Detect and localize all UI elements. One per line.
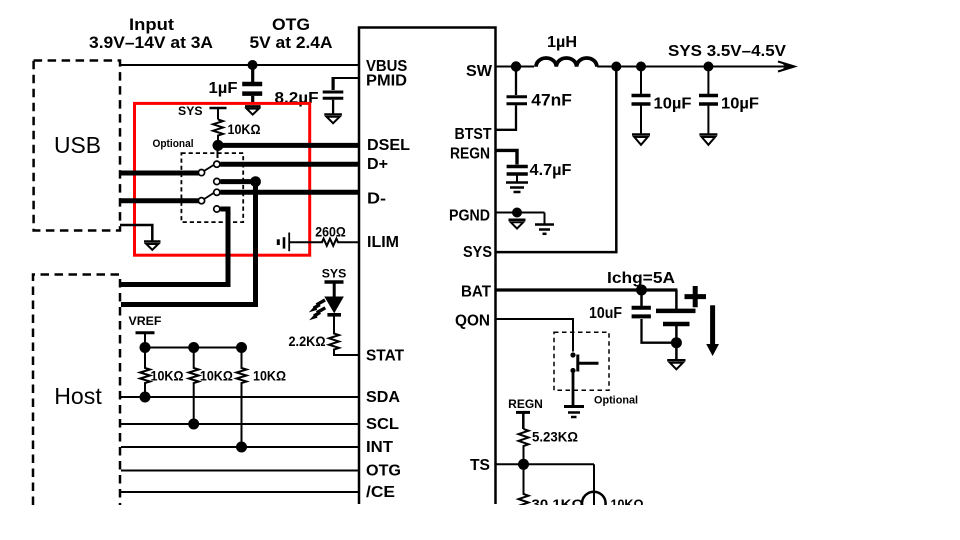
inductor 1uH xyxy=(536,34,597,67)
svg-text:1µH: 1µH xyxy=(547,34,577,51)
wire SDA xyxy=(121,396,359,398)
svg-text:10KΩ: 10KΩ xyxy=(200,368,233,384)
IC U1 charger xyxy=(359,28,496,505)
node cap1 xyxy=(636,62,646,72)
svg-text:INT: INT xyxy=(366,439,393,456)
ground 8.2uF xyxy=(324,114,342,123)
wire D- xyxy=(220,190,359,195)
node DSEL junction xyxy=(213,140,224,151)
svg-text:SW: SW xyxy=(466,63,493,80)
wire to host upper xyxy=(121,209,228,285)
svg-text:10KΩ: 10KΩ xyxy=(253,368,286,384)
ground PGND earth xyxy=(535,213,554,234)
battery BT1 xyxy=(656,286,706,343)
wire VREF bus xyxy=(145,347,242,349)
node SDA xyxy=(140,392,151,403)
capacitor 1uF xyxy=(209,65,263,105)
svg-text:47nF: 47nF xyxy=(531,90,572,109)
svg-text:10KΩ: 10KΩ xyxy=(228,121,261,137)
resistor 260ohm xyxy=(290,224,359,246)
svg-text:Optional: Optional xyxy=(153,138,194,150)
title Input xyxy=(89,15,213,52)
svg-text:PGND: PGND xyxy=(449,208,490,225)
svg-text:SYS 3.5V–4.5V: SYS 3.5V–4.5V xyxy=(668,43,786,60)
svg-text:D-: D- xyxy=(367,191,386,208)
capacitor 8.2uF xyxy=(275,77,344,114)
wire SYS output xyxy=(597,66,789,68)
node SW xyxy=(511,61,521,71)
resistor 2.2K xyxy=(289,317,360,356)
node INT xyxy=(236,442,247,453)
thermistor 10K xyxy=(582,464,644,515)
ground USB xyxy=(144,242,161,250)
svg-text:Ichg=5A: Ichg=5A xyxy=(607,270,675,287)
svg-text:30.1KΩ: 30.1KΩ xyxy=(532,496,584,512)
node cap2 xyxy=(703,62,713,72)
wire QON xyxy=(496,319,574,352)
wire BAT xyxy=(496,288,678,291)
svg-text:REGN: REGN xyxy=(508,397,543,411)
svg-text:D+: D+ xyxy=(367,156,388,173)
resistor 30.1K xyxy=(519,464,584,512)
svg-text:SDA: SDA xyxy=(366,389,400,406)
wire OTG xyxy=(121,470,359,472)
net SYS to pin xyxy=(496,67,617,253)
svg-text:/CE: /CE xyxy=(366,484,395,501)
svg-text:10uF: 10uF xyxy=(589,305,622,322)
net SYS rail LED xyxy=(322,267,347,299)
arrow charge current xyxy=(706,305,719,356)
wire PMID xyxy=(333,77,359,79)
switch box dashed xyxy=(181,153,243,222)
svg-text:DSEL: DSEL xyxy=(367,137,410,154)
battery ILIM ref xyxy=(278,233,289,252)
node L out xyxy=(611,62,621,72)
capacitor 10uF BAT xyxy=(589,290,676,343)
ground 1uF xyxy=(245,106,261,114)
svg-text:10KΩ: 10KΩ xyxy=(611,496,644,512)
svg-text:10µF: 10µF xyxy=(654,96,692,113)
net SYS rail top xyxy=(178,104,226,120)
node battery gnd xyxy=(671,337,682,348)
wire PGND xyxy=(496,212,545,214)
svg-text:2.2KΩ: 2.2KΩ xyxy=(289,333,326,349)
svg-text:BTST: BTST xyxy=(455,126,492,143)
wire switch to gnd xyxy=(572,373,575,406)
svg-text:Input: Input xyxy=(129,15,174,34)
node VBUS junction xyxy=(248,60,258,70)
svg-text:OTG: OTG xyxy=(272,15,310,34)
title OTG xyxy=(250,15,333,52)
wire DSEL xyxy=(218,143,359,148)
capacitor 10uF sys2 xyxy=(699,67,759,135)
svg-text:ILIM: ILIM xyxy=(367,234,399,251)
wire TS xyxy=(496,463,595,465)
LED STAT xyxy=(309,297,343,320)
node BAT xyxy=(636,285,647,296)
wire USB ground xyxy=(120,225,152,241)
red highlight box xyxy=(135,103,310,255)
wire /CE xyxy=(121,491,359,493)
svg-text:5.23KΩ: 5.23KΩ xyxy=(532,429,578,445)
capacitor 4.7uF REGN xyxy=(496,150,572,182)
svg-text:TS: TS xyxy=(470,457,490,474)
ground 4.7uF earth xyxy=(506,183,528,193)
wire sw1 pole xyxy=(120,171,199,176)
ground battery xyxy=(667,343,685,370)
node SCL xyxy=(188,419,199,430)
svg-text:USB: USB xyxy=(54,132,101,158)
wire SW output xyxy=(496,66,535,68)
svg-text:Host: Host xyxy=(54,383,102,409)
resistor 10K SDA xyxy=(140,348,184,398)
resistor 10K SCL xyxy=(189,348,233,425)
svg-text:4.7µF: 4.7µF xyxy=(530,162,572,179)
node bus 3 xyxy=(236,342,247,353)
wire sw2 pole xyxy=(120,198,199,203)
net VREF rail xyxy=(129,314,162,348)
svg-text:260Ω: 260Ω xyxy=(315,224,346,240)
svg-text:VREF: VREF xyxy=(129,314,162,328)
switch dashed box xyxy=(554,332,609,390)
node PGND xyxy=(512,208,522,218)
arrow SYS output xyxy=(778,62,795,72)
svg-text:3.9V–14V at 3A: 3.9V–14V at 3A xyxy=(89,33,213,52)
ground 10uF sys1 xyxy=(632,135,650,145)
svg-text:SYS: SYS xyxy=(463,244,492,261)
node bus 2 xyxy=(188,342,199,353)
svg-text:5V at 2.4A: 5V at 2.4A xyxy=(250,33,333,52)
ground PGND triangle xyxy=(509,220,526,229)
wire SCL xyxy=(121,423,359,425)
node bus 1 xyxy=(140,342,151,353)
svg-text:STAT: STAT xyxy=(366,348,404,365)
USB connector box xyxy=(34,61,120,231)
resistor 10K DSEL pullup xyxy=(213,120,261,141)
ground switch earth xyxy=(564,407,584,418)
svg-text:10µF: 10µF xyxy=(721,96,759,113)
ground 10uF sys2 xyxy=(699,135,717,145)
svg-text:SCL: SCL xyxy=(366,416,399,433)
wire VBUS input xyxy=(120,64,359,66)
Host box xyxy=(33,275,120,506)
svg-text:BAT: BAT xyxy=(461,284,491,301)
svg-text:1µF: 1µF xyxy=(209,80,238,97)
svg-text:REGN: REGN xyxy=(450,146,490,163)
svg-text:QON: QON xyxy=(455,313,490,330)
switch sw2 xyxy=(198,189,220,212)
capacitor 10uF sys1 xyxy=(632,67,692,135)
net REGN rail xyxy=(508,397,543,429)
pushbutton switch xyxy=(570,352,598,373)
switch sw1 xyxy=(198,161,220,185)
node D junction xyxy=(250,176,261,187)
resistor 5.23K xyxy=(519,429,579,465)
wire DSEL stem to switch xyxy=(217,145,219,158)
wire to host lower xyxy=(121,182,256,305)
wire sw1 lower throw xyxy=(220,179,250,184)
svg-text:PMID: PMID xyxy=(366,73,407,90)
svg-text:SYS: SYS xyxy=(322,267,347,281)
wire INT xyxy=(121,446,359,448)
svg-text:Optional: Optional xyxy=(594,395,638,407)
resistor 10K INT xyxy=(237,348,287,448)
node TS xyxy=(518,459,529,470)
wire D+ xyxy=(220,162,359,167)
svg-text:10KΩ: 10KΩ xyxy=(151,368,184,384)
svg-text:OTG: OTG xyxy=(366,463,401,480)
svg-text:SYS: SYS xyxy=(178,104,203,118)
capacitor 47nF xyxy=(496,67,572,130)
